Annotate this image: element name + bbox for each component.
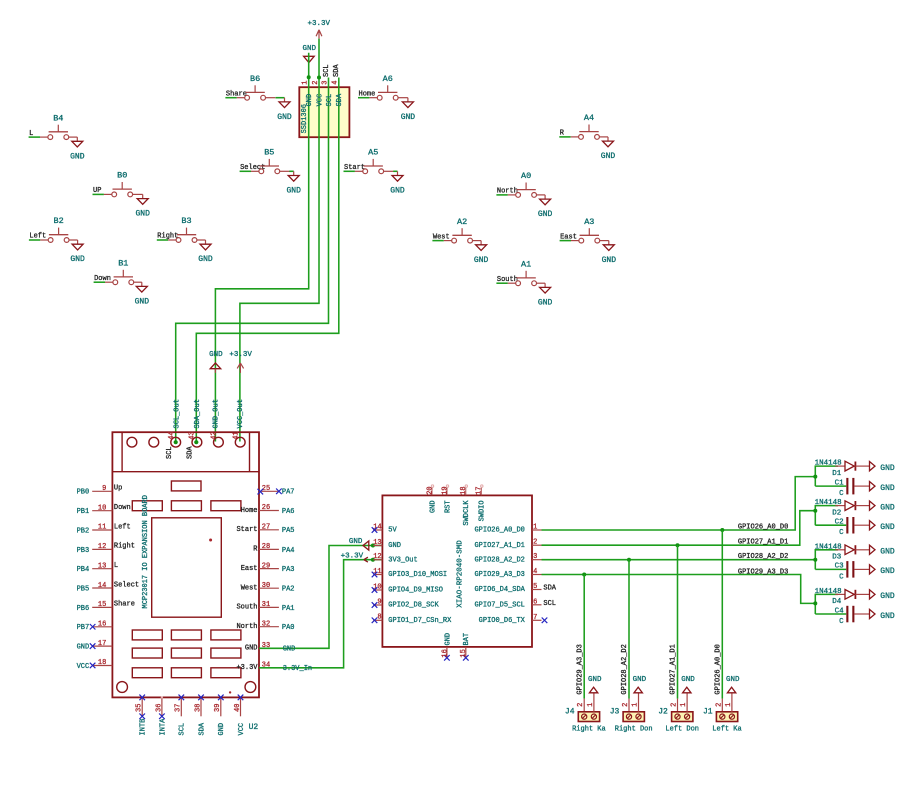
svg-text:Right Ka: Right Ka	[572, 726, 606, 734]
svg-text:GND: GND	[880, 464, 895, 473]
wire SCL net (SSD1306 pin3 to header pin44)	[176, 78, 329, 443]
ground (at D4 cathode)	[870, 590, 895, 601]
svg-text:PA0: PA0	[282, 624, 295, 632]
svg-text:GND: GND	[602, 256, 617, 265]
svg-text:A2: A2	[457, 217, 467, 227]
connector J2 (Left Don)	[658, 699, 699, 734]
pin 37 SCL (U2 bottom)	[175, 695, 187, 736]
svg-text:INTA: INTA	[159, 718, 167, 736]
svg-text:Up: Up	[114, 485, 122, 493]
svg-text:16: 16	[98, 621, 106, 629]
svg-text:2: 2	[622, 703, 630, 707]
svg-text:17: 17	[98, 640, 106, 648]
svg-text:PA4: PA4	[282, 547, 295, 555]
junction (J3 drop)	[627, 558, 631, 562]
svg-text:GPIO29_A3_D3: GPIO29_A3_D3	[474, 571, 524, 579]
svg-text:B1: B1	[118, 258, 128, 268]
push button A1 (South)	[496, 259, 545, 285]
svg-text:GPIO26_A0_D0: GPIO26_A0_D0	[738, 523, 788, 531]
svg-text:GND: GND	[726, 676, 740, 684]
wire GPIO29_A3_D3 (to J4 pin2)	[583, 575, 585, 699]
power +3.3V (global label at XIAO pin12)	[341, 552, 368, 562]
svg-text:GPIO6_D4_SDA: GPIO6_D4_SDA	[474, 586, 525, 594]
wire GPIO27_A1_D1 (to J2 pin2)	[677, 545, 679, 698]
svg-text:GND: GND	[390, 187, 405, 196]
svg-text:3.3V_In: 3.3V_In	[283, 665, 312, 673]
svg-text:VCC: VCC	[238, 723, 246, 736]
junction (XIAO pin13)	[371, 544, 375, 548]
pin 26 PA6 (U2 right)	[241, 504, 295, 516]
pin 35 INTB (U2 bottom)	[136, 695, 148, 736]
svg-text:GND: GND	[135, 297, 150, 306]
svg-text:18: 18	[460, 486, 468, 494]
wire GND (U2 pin33 to XIAO pin13)	[259, 546, 382, 649]
svg-text:44: 44	[168, 431, 176, 439]
svg-text:VCC: VCC	[77, 663, 90, 671]
svg-text:6: 6	[533, 598, 537, 606]
svg-text:Right Don: Right Don	[615, 726, 653, 734]
svg-text:South: South	[236, 604, 257, 612]
svg-text:Share: Share	[114, 601, 135, 609]
svg-text:PB6: PB6	[77, 605, 90, 613]
svg-text:GND: GND	[474, 256, 489, 265]
svg-text:9: 9	[377, 598, 381, 606]
svg-text:2: 2	[671, 703, 679, 707]
svg-text:PA1: PA1	[282, 605, 295, 613]
svg-text:GND: GND	[401, 113, 416, 122]
ground (at C4)	[870, 609, 895, 620]
svg-text:Left: Left	[114, 523, 131, 531]
svg-text:West: West	[241, 585, 258, 593]
svg-text:43: 43	[188, 431, 196, 439]
svg-text:GND: GND	[349, 538, 363, 546]
svg-text:C4: C4	[835, 607, 845, 615]
svg-text:VCC: VCC	[316, 94, 324, 107]
svg-text:41: 41	[232, 431, 240, 439]
ground	[135, 194, 150, 218]
svg-text:Select: Select	[114, 581, 139, 589]
pin 12 PB3 (U2 left)	[77, 543, 135, 555]
svg-text:GND: GND	[681, 676, 695, 684]
svg-text:5V: 5V	[388, 527, 397, 535]
junction (SSD1306 pin2)	[317, 76, 321, 80]
svg-text:GND: GND	[429, 500, 437, 513]
svg-text:SCL: SCL	[179, 723, 187, 736]
svg-text:GND: GND	[880, 612, 895, 621]
svg-text:C1: C1	[835, 479, 845, 487]
svg-text:16: 16	[441, 649, 449, 657]
svg-text:9: 9	[102, 485, 106, 493]
svg-text:GND: GND	[880, 523, 895, 532]
svg-text:2: 2	[577, 703, 585, 707]
pin 34 3.3V_In (U2 right)	[236, 662, 312, 673]
push button B6 (Share)	[225, 74, 284, 100]
svg-text:SCL_Out: SCL_Out	[173, 399, 181, 428]
module XIAO-RP2040-SMD body	[382, 495, 532, 647]
push button A5 (Start)	[344, 148, 398, 174]
svg-text:GND: GND	[633, 676, 647, 684]
pin 30 PA2 (U2 right)	[241, 582, 295, 594]
svg-text:GND: GND	[538, 298, 553, 307]
ground (at J2 pin1)	[681, 676, 695, 712]
junction (J2 drop)	[676, 543, 680, 547]
svg-text:GND: GND	[444, 633, 452, 646]
svg-text:GND: GND	[388, 542, 401, 550]
ground	[474, 241, 489, 265]
connector J4 (Right Ka)	[565, 699, 606, 734]
svg-text:BAT: BAT	[463, 633, 471, 646]
svg-text:SDA: SDA	[543, 585, 556, 593]
svg-text:C2: C2	[835, 519, 844, 527]
wire VCC net (SSD1306 pin2 to header pin41)	[240, 39, 319, 442]
svg-text:SWDCLK: SWDCLK	[463, 500, 471, 526]
ground (at D1 cathode)	[870, 462, 895, 473]
svg-text:3: 3	[533, 553, 537, 561]
svg-text:28: 28	[262, 543, 270, 551]
ground (at D2 cathode)	[870, 501, 895, 512]
svg-text:B6: B6	[250, 74, 260, 84]
junction (D3/C3)	[813, 558, 817, 562]
svg-text:31: 31	[262, 601, 270, 609]
svg-text:PB2: PB2	[77, 527, 90, 535]
ground	[401, 98, 416, 122]
junction (D2/C2)	[813, 509, 817, 513]
ground	[390, 171, 405, 195]
wire GPIO26_A0_D0 (to J1 pin2)	[721, 530, 723, 699]
svg-text:C: C	[839, 618, 844, 626]
pin 18 VCC (U2 left)	[77, 659, 113, 671]
OLED module SSD1306 labels	[301, 81, 344, 134]
junction (SSD1306 pin1)	[307, 75, 311, 79]
pin 38 SDA (U2 bottom)	[194, 695, 206, 736]
pin 25 PA7 (U2 right)	[258, 485, 295, 497]
svg-text:Home: Home	[241, 507, 258, 515]
svg-text:+3.3V: +3.3V	[341, 552, 364, 560]
capacitor C3 (C)	[835, 561, 870, 581]
svg-text:Down: Down	[114, 504, 131, 512]
diode D3 1N4148	[815, 543, 870, 561]
power +3.3V (above MCP header VCC_Out)	[229, 351, 252, 373]
wire GPIO29_A3_D3 (XIAO pin4 to D4/C4)	[542, 575, 816, 604]
wire GPIO27_A1_D1 (XIAO pin2 to D2/C2)	[542, 511, 816, 546]
svg-text:D3: D3	[832, 554, 842, 562]
svg-text:East: East	[241, 565, 258, 573]
push button A2 (West)	[432, 217, 481, 243]
pin 8 GPIO1_D7_CSn_RX (XIAO left)	[372, 614, 452, 625]
svg-text:GND: GND	[218, 723, 226, 736]
svg-text:B0: B0	[117, 171, 127, 181]
svg-text:8: 8	[377, 614, 381, 622]
svg-text:A3: A3	[584, 217, 594, 227]
ground	[70, 137, 85, 161]
svg-text:36: 36	[155, 704, 163, 712]
pin 10 GPIO4_D9_MISO (XIAO left)	[372, 583, 443, 594]
svg-text:+3.3V: +3.3V	[229, 351, 252, 359]
svg-text:GND: GND	[283, 645, 296, 653]
svg-text:GND: GND	[588, 676, 602, 684]
push button B4 (L)	[29, 113, 78, 139]
push button B3 (Right)	[157, 216, 206, 242]
ground (at C3)	[870, 565, 895, 576]
svg-text:GPIO26_A0_D0: GPIO26_A0_D0	[474, 527, 524, 535]
pin 20 GND (XIAO top)	[426, 485, 437, 513]
svg-text:D4: D4	[832, 598, 842, 606]
svg-text:GND: GND	[880, 548, 895, 557]
svg-text:40: 40	[234, 704, 242, 712]
svg-text:35: 35	[136, 704, 144, 712]
connector J1 (Left Ka)	[703, 699, 742, 734]
svg-text:30: 30	[262, 582, 270, 590]
svg-text:3: 3	[321, 81, 329, 85]
svg-text:19: 19	[441, 486, 449, 494]
svg-text:PB3: PB3	[77, 547, 90, 555]
ground	[602, 241, 617, 265]
svg-text:15: 15	[98, 601, 106, 609]
ground (at C2)	[870, 521, 895, 532]
svg-text:C: C	[839, 490, 844, 498]
capacitor C4 (C)	[835, 606, 870, 626]
svg-text:GPIO3_D10_MOSI: GPIO3_D10_MOSI	[388, 571, 447, 579]
ground	[538, 195, 553, 219]
svg-text:PB4: PB4	[77, 566, 90, 574]
svg-text:A1: A1	[521, 259, 531, 269]
ground	[70, 240, 85, 264]
wire SDA net (SSD1306 pin4 to header pin43)	[196, 78, 338, 443]
ground (at J4 pin1)	[588, 676, 602, 712]
junction (J4 drop)	[582, 573, 586, 577]
svg-text:1N4148: 1N4148	[815, 543, 842, 551]
svg-text:GPIO29_A3_D3: GPIO29_A3_D3	[576, 644, 584, 694]
svg-text:B2: B2	[53, 216, 63, 226]
svg-text:GND: GND	[286, 187, 301, 196]
svg-text:GND: GND	[245, 645, 258, 653]
svg-text:RST: RST	[444, 500, 452, 513]
wire GPIO28_A2_D2 (to J3 pin2)	[628, 560, 630, 699]
svg-text:29: 29	[262, 562, 270, 570]
svg-text:PA5: PA5	[282, 527, 295, 535]
svg-text:GPIO27_A1_D1: GPIO27_A1_D1	[670, 644, 678, 694]
svg-text:GPIO28_A2_D2: GPIO28_A2_D2	[621, 644, 629, 694]
svg-text:PA2: PA2	[282, 586, 295, 594]
svg-text:GND: GND	[277, 113, 292, 122]
pin 9 GPIO2_D8_SCK (XIAO left)	[372, 598, 440, 609]
pin 3 GPIO28_A2_D2 (XIAO right)	[474, 553, 541, 564]
pin 6 GPIO7_D5_SCL (XIAO right)	[474, 598, 541, 609]
pin 18 SWDCLK (XIAO top)	[460, 485, 471, 526]
svg-text:SCL: SCL	[323, 64, 331, 77]
svg-text:INTB: INTB	[140, 719, 148, 736]
svg-text:PA6: PA6	[282, 508, 295, 516]
pin 4 GPIO29_A3_D3 (XIAO right)	[474, 568, 541, 579]
svg-text:37: 37	[175, 704, 183, 712]
push button A3 (East)	[560, 217, 609, 243]
svg-text:C: C	[839, 573, 844, 581]
svg-text:D2: D2	[832, 509, 841, 517]
ground (at C1)	[870, 482, 895, 493]
svg-text:SSD1306: SSD1306	[301, 104, 309, 133]
pin 16 GND (XIAO bottom)	[441, 633, 452, 661]
pin 28 PA4 (U2 right)	[253, 543, 294, 555]
svg-text:14: 14	[98, 582, 106, 590]
pin 14 5V (XIAO left)	[372, 523, 398, 534]
svg-text:42: 42	[211, 431, 219, 439]
svg-text:34: 34	[262, 662, 270, 670]
svg-text:XIAO-RP2040-SMD: XIAO-RP2040-SMD	[457, 540, 465, 608]
svg-text:5: 5	[533, 583, 537, 591]
pin 12 3V3_Out (XIAO left)	[373, 553, 418, 564]
diode D4 1N4148	[815, 588, 870, 606]
capacitor C2 (C)	[835, 517, 870, 537]
svg-text:SDA: SDA	[336, 93, 344, 106]
svg-text:7: 7	[533, 614, 537, 622]
pin 11 GPIO3_D10_MOSI (XIAO left)	[372, 568, 447, 579]
ground	[277, 98, 292, 122]
svg-text:12: 12	[373, 553, 381, 561]
pin 13 PB4 (U2 left)	[77, 562, 119, 574]
svg-text:33: 33	[262, 642, 270, 650]
push button A6 (Home)	[358, 74, 408, 100]
svg-text:Start: Start	[236, 526, 257, 534]
pin 36 INTA (U2 bottom)	[155, 696, 167, 735]
svg-text:PB5: PB5	[77, 585, 90, 593]
svg-text:GND: GND	[880, 567, 895, 576]
svg-text:SDA_Out: SDA_Out	[194, 399, 202, 428]
svg-text:38: 38	[194, 704, 202, 712]
svg-text:SDA: SDA	[198, 722, 206, 735]
svg-text:GPIO26_A0_D0: GPIO26_A0_D0	[714, 644, 722, 694]
svg-text:GPIO29_A3_D3: GPIO29_A3_D3	[738, 569, 788, 577]
svg-text:J1: J1	[703, 708, 713, 717]
junction (J1 drop)	[720, 528, 724, 532]
pin 29 PA3 (U2 right)	[241, 562, 295, 574]
pin 19 RST (XIAO top)	[441, 485, 452, 513]
ground (top, above SSD1306)	[302, 45, 316, 63]
svg-text:GPIO27_A1_D1: GPIO27_A1_D1	[738, 539, 788, 547]
svg-text:1N4148: 1N4148	[815, 460, 842, 468]
pin 17 GND (U2 left)	[77, 640, 113, 652]
pin 15 PB6 (U2 left)	[77, 601, 135, 613]
ground (at J3 pin1)	[633, 676, 647, 712]
svg-text:PB1: PB1	[77, 508, 90, 516]
svg-text:2: 2	[312, 81, 320, 85]
pin 16 PB7 (U2 left)	[77, 621, 113, 633]
svg-text:12: 12	[98, 543, 106, 551]
pin 7 GPIO0_D6_TX (XIAO right)	[479, 614, 548, 625]
pin 15 BAT (XIAO bottom)	[460, 633, 471, 661]
power +3.3V (top)	[308, 20, 331, 39]
svg-text:27: 27	[262, 524, 270, 532]
svg-text:UP: UP	[93, 187, 101, 195]
diode D2 1N4148	[815, 499, 870, 517]
svg-text:J4: J4	[565, 708, 575, 717]
svg-text:J2: J2	[658, 708, 668, 717]
junction (D4/C4)	[813, 601, 817, 605]
wire 3.3V (U2 pin34 to XIAO pin12)	[259, 560, 382, 668]
svg-text:17: 17	[476, 486, 484, 494]
pin 14 PB5 (U2 left)	[77, 581, 140, 593]
svg-text:SCL: SCL	[543, 600, 556, 608]
svg-text:GND: GND	[880, 592, 895, 601]
svg-text:PB0: PB0	[77, 489, 90, 497]
svg-text:SDA: SDA	[187, 446, 195, 459]
diode D1 1N4148	[815, 460, 870, 478]
ground (global label at XIAO pin13)	[349, 538, 369, 550]
svg-text:GND: GND	[538, 210, 553, 219]
svg-text:GND: GND	[70, 255, 85, 264]
svg-text:VCC_Out: VCC_Out	[237, 399, 245, 428]
push button B2 (Left)	[29, 216, 78, 242]
svg-text:Left Don: Left Don	[665, 726, 699, 734]
push button A4 (R)	[559, 113, 608, 139]
svg-text:13: 13	[98, 562, 106, 570]
svg-text:26: 26	[262, 504, 270, 512]
svg-text:GND: GND	[135, 210, 150, 219]
svg-text:C: C	[839, 529, 844, 537]
svg-text:SCL: SCL	[166, 446, 174, 459]
svg-text:GND: GND	[198, 255, 213, 264]
ground	[135, 282, 150, 306]
svg-text:GPIO28_A2_D2: GPIO28_A2_D2	[738, 553, 788, 561]
pin 17 SWDIO (XIAO top)	[476, 485, 487, 522]
svg-text:18: 18	[98, 659, 106, 667]
pin 33 GND (U2 right)	[245, 642, 295, 653]
svg-text:+3.3V: +3.3V	[308, 20, 331, 28]
pin 11 PB2 (U2 left)	[77, 523, 131, 535]
svg-text:A5: A5	[368, 148, 378, 158]
svg-text:L: L	[114, 562, 118, 570]
ground	[601, 137, 616, 161]
svg-text:B4: B4	[53, 113, 63, 123]
svg-text:2: 2	[533, 539, 537, 547]
junction (header pin 44 SCL)	[174, 440, 178, 444]
pin 31 PA1 (U2 right)	[236, 601, 294, 613]
svg-text:D1: D1	[832, 470, 842, 478]
svg-text:4: 4	[533, 568, 537, 576]
pin 39 GND (U2 bottom)	[214, 695, 226, 736]
wire GPIO26_A0_D0 (XIAO pin1 to D1/C1)	[542, 477, 816, 530]
svg-text:GPIO7_D5_SCL: GPIO7_D5_SCL	[474, 602, 524, 610]
svg-text:GND: GND	[77, 644, 90, 652]
svg-text:1: 1	[533, 524, 537, 532]
wire GND net (SSD1306 pin1 to header pin42)	[215, 53, 308, 442]
svg-text:GND: GND	[880, 503, 895, 512]
ground (at D3 cathode)	[870, 545, 895, 557]
svg-text:3V3_Out: 3V3_Out	[388, 556, 417, 564]
junction (XIAO pin12)	[371, 558, 375, 562]
svg-text:39: 39	[214, 704, 222, 712]
svg-text:20: 20	[426, 486, 434, 494]
svg-text:B5: B5	[264, 148, 274, 158]
ground (at J1 pin1)	[726, 676, 740, 712]
svg-text:A0: A0	[521, 171, 531, 181]
svg-text:SDA: SDA	[333, 64, 341, 77]
svg-text:2: 2	[715, 703, 723, 707]
svg-text:B3: B3	[181, 216, 191, 226]
svg-text:4: 4	[332, 81, 340, 85]
pin 9 PB0 (U2 left)	[77, 485, 123, 497]
push button B1 (Down)	[94, 258, 142, 284]
IC U2 MCP23017 IO expansion board body	[112, 432, 259, 697]
svg-text:GPIO28_A2_D2: GPIO28_A2_D2	[474, 556, 524, 564]
ground	[538, 283, 553, 307]
svg-text:13: 13	[373, 539, 381, 547]
svg-text:GND: GND	[209, 351, 223, 359]
OLED module SSD1306 body	[299, 87, 349, 137]
capacitor C1 (C)	[835, 478, 870, 498]
svg-text:J3: J3	[610, 708, 620, 717]
pin 13 GND (XIAO left)	[373, 539, 401, 550]
svg-text:GND_Out: GND_Out	[213, 399, 221, 428]
